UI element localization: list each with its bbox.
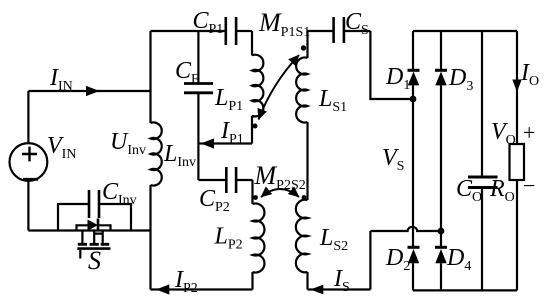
svg-text:CP1: CP1 [193,8,224,37]
node dot L_S1 [301,45,306,50]
svg-text:LP1: LP1 [214,85,243,114]
svg-text:−: − [523,173,535,198]
svg-text:CInv: CInv [102,179,137,208]
coupling arrow M_P1S1 [259,55,300,120]
wire load branch top [516,31,518,144]
wire C_F branch top [197,31,199,83]
arrow I_O [512,80,521,93]
svg-text:MP2S2: MP2S2 [254,161,306,193]
wire L_S2 bottom lead [306,272,308,290]
wire I_S riser [369,231,371,290]
svg-text:CS: CS [345,9,369,38]
bottom rail rectifier [413,289,517,291]
wire C_O branch [481,31,483,290]
top rail rectifier [413,30,517,32]
inductor L_P1 [252,55,263,117]
wire L_P2 bottom lead [251,272,253,290]
svg-text:+: + [523,120,535,145]
diode D1 [408,70,420,85]
svg-text:VS: VS [382,145,404,174]
capacitor C_P1 [226,17,252,45]
top rail left segment [151,30,226,32]
transistor Q switch with body diode [77,219,111,259]
wire inverter bottom wire [28,229,150,231]
svg-text:IP2: IP2 [174,267,198,296]
svg-text:IIN: IIN [49,65,73,94]
inductor L_S1 [296,57,307,122]
top rail secondary segment [308,30,334,32]
wire secondary middle lead [306,122,308,200]
svg-text:D4: D4 [446,245,471,274]
wire rectifier leg1 [412,31,414,290]
coupling arrow M_P2S2 [261,189,299,197]
capacitor C_O [468,177,498,188]
svg-text:VO: VO [491,119,516,148]
svg-text:D3: D3 [448,65,473,94]
inductor L_Inv [151,122,162,185]
svg-text:LS1: LS1 [318,86,347,115]
svg-text:IS: IS [333,266,350,295]
svg-text:CO: CO [456,176,482,205]
wire source top lead [27,91,29,143]
wire L_P1 bottom lead [251,116,253,144]
svg-text:CF: CF [175,58,199,87]
wire left rail bottom [149,185,151,290]
node dot L_P2 [253,195,258,200]
svg-text:D2: D2 [385,245,410,274]
svg-text:LS2: LS2 [319,225,348,254]
diode D4 [435,247,447,263]
wire L_P1 top lead [251,31,253,55]
wire I_S bottom wire [308,288,371,290]
wire source bottom lead [27,181,29,231]
resistor R_O [510,144,525,180]
wire L_S1 top lead [306,31,308,58]
svg-text:LP2: LP2 [214,224,243,253]
svg-text:UInv: UInv [110,129,146,158]
svg-text:VIN: VIN [47,133,76,162]
wire rectifier leg2 [440,31,442,290]
wire L_P2 top lead [251,180,253,204]
wire C_S to rectifier [370,31,413,99]
arrow I_S [311,285,324,295]
svg-text:LInv: LInv [163,141,196,170]
wire I_IN top wire [28,90,150,92]
node dot L_P1 [253,124,258,129]
capacitor C_S [334,17,371,43]
arrow I_IN [86,86,100,96]
capacitor C_Inv [58,190,131,231]
capacitor C_P2 [198,167,252,193]
svg-text:D1: D1 [385,64,410,93]
wire C_F branch bottom [197,94,199,180]
svg-text:IP1: IP1 [220,118,244,147]
svg-text:MP1S1: MP1S1 [258,8,310,40]
diode D2 [408,247,420,263]
voltage source V_IN [10,143,48,181]
node dot rectifier AC2 [438,228,445,235]
arrow I_P1 [201,138,214,148]
node dot L_S2 [302,195,307,200]
diode D3 [435,70,447,85]
wire I_P1 wire [198,142,252,144]
wire AC2 with hop [370,227,441,231]
svg-text:S: S [88,246,101,275]
inductor L_P2 [253,204,265,273]
capacitor C_F [184,84,213,93]
wire load branch bottom [516,180,518,290]
arrow I_P2 [156,284,169,294]
svg-text:IO: IO [520,60,539,89]
wire left rail top [149,31,151,123]
wire I_P2 bottom wire [151,288,253,290]
node dot rectifier AC1 [410,96,417,103]
inductor L_S2 [296,200,308,273]
